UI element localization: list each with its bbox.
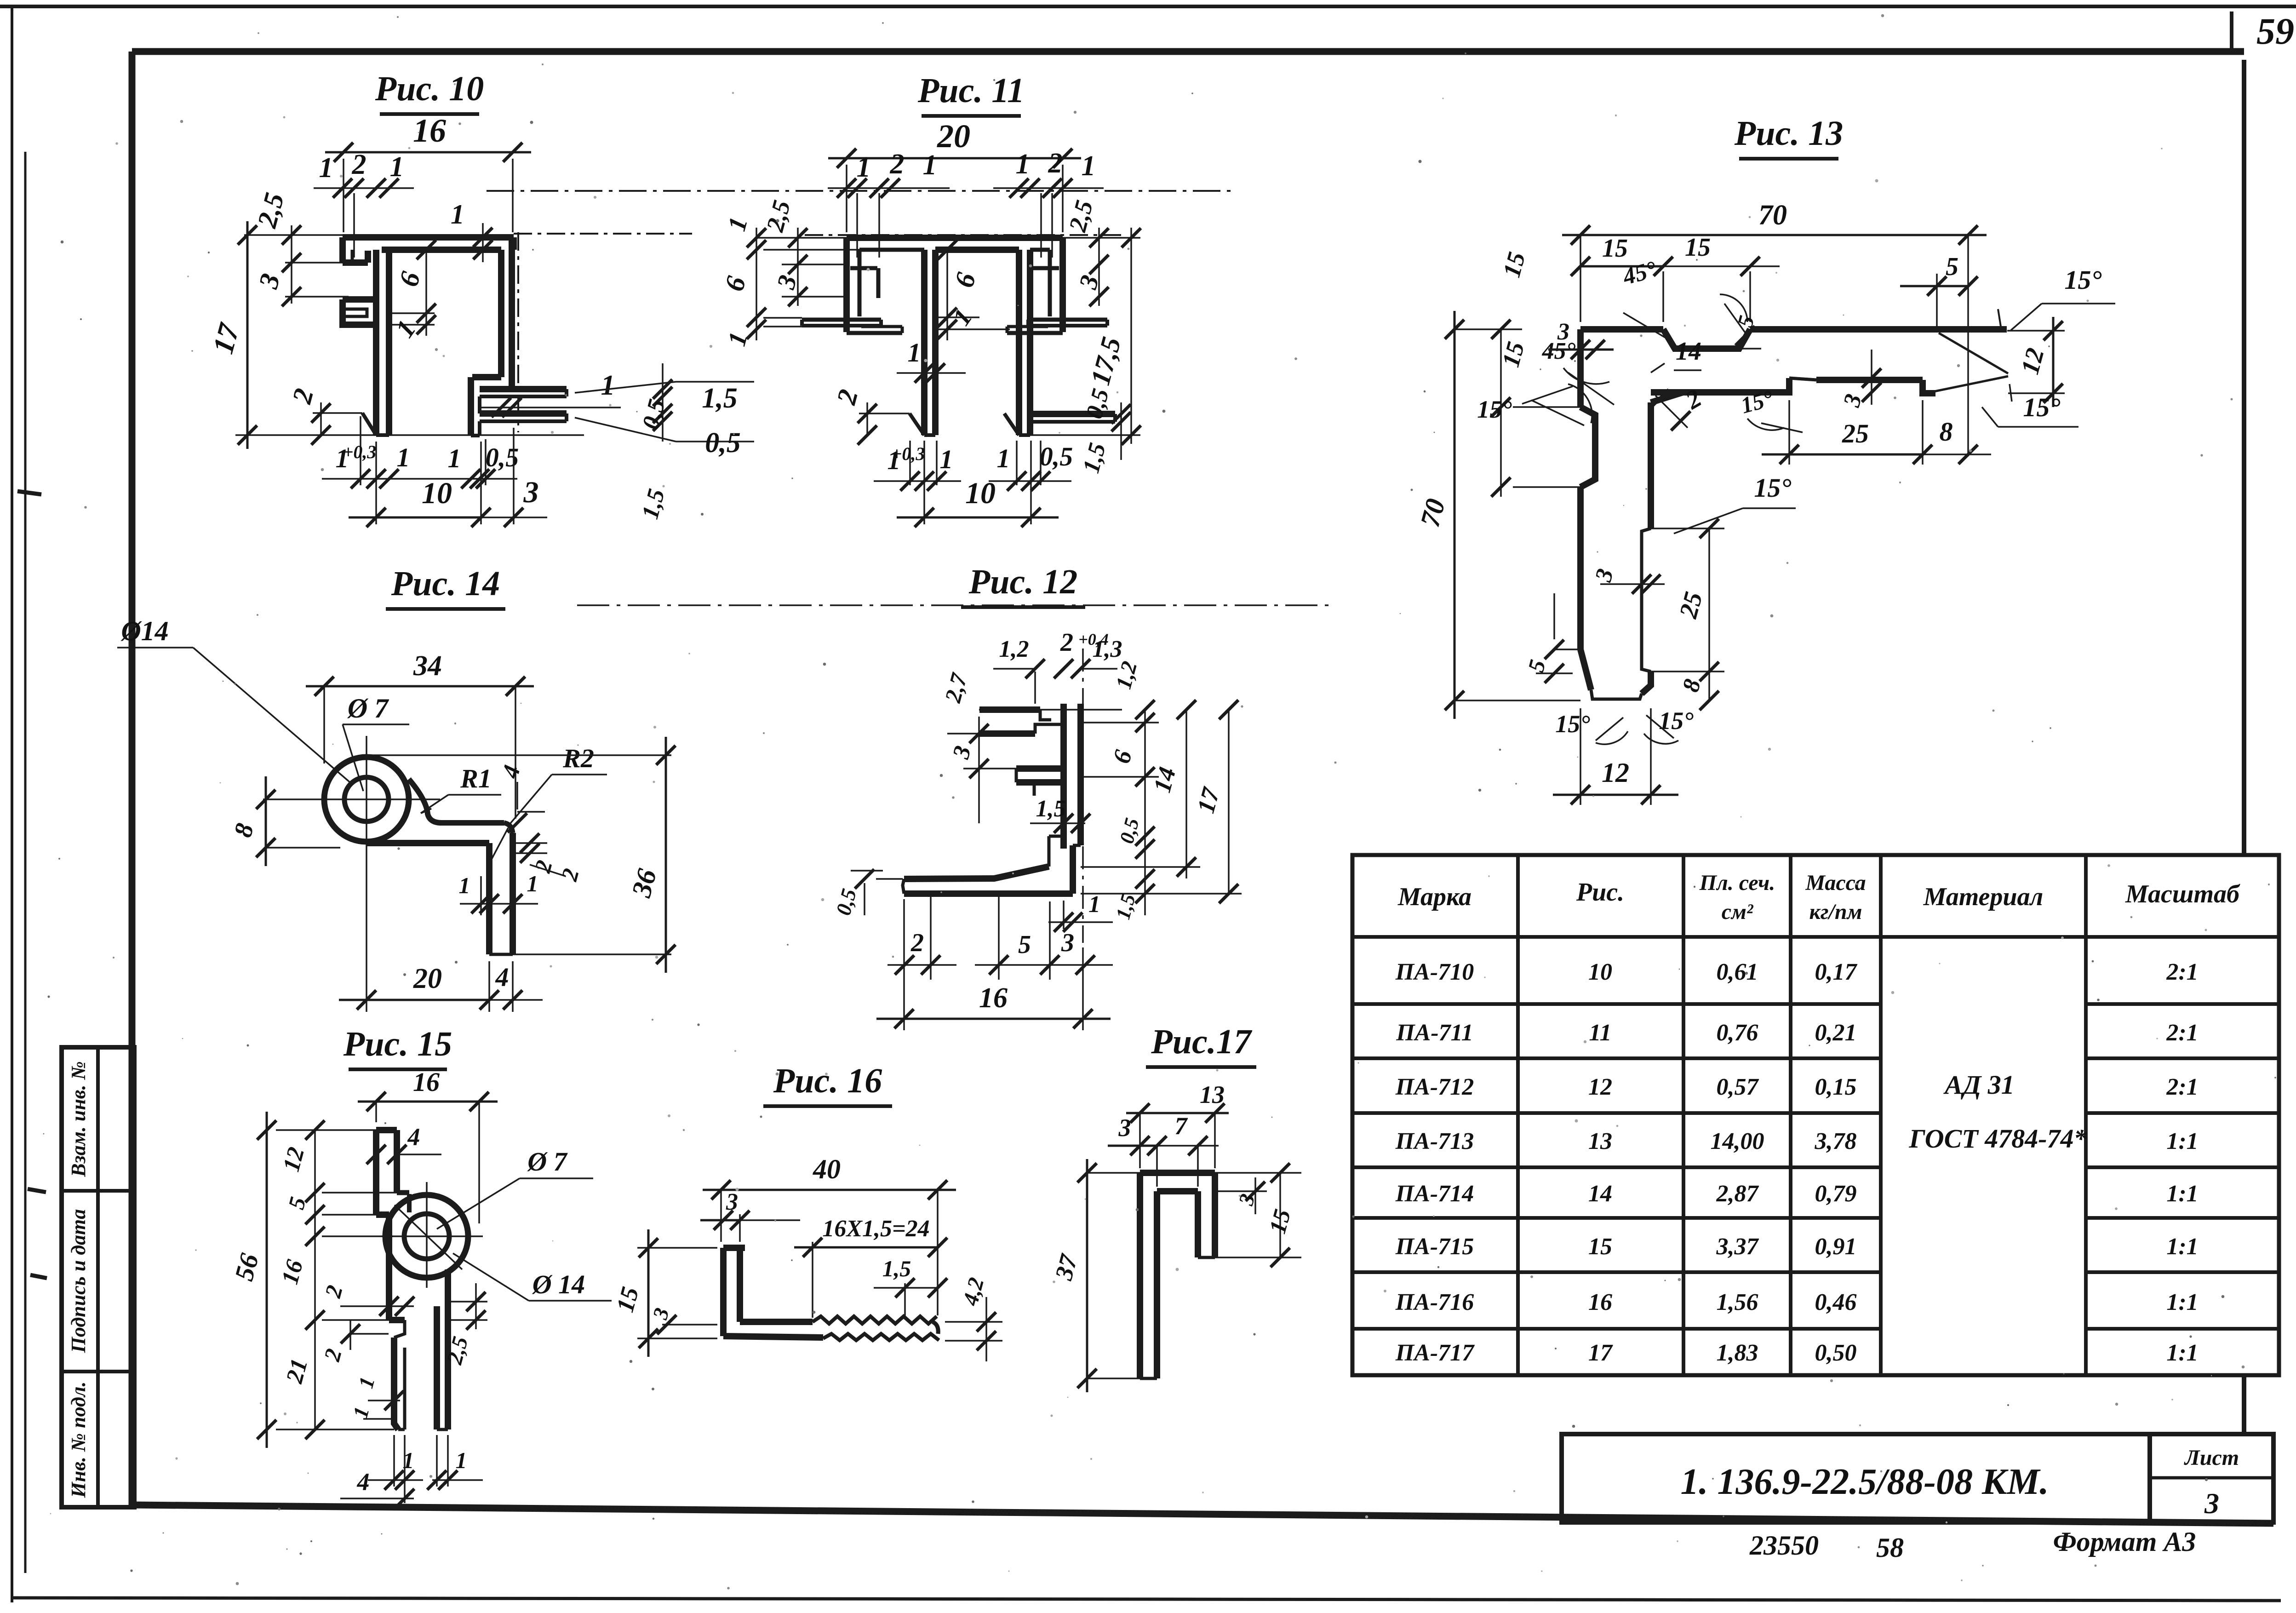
sheet left edge line: [11, 6, 13, 1602]
svg-text:Рис. 13: Рис. 13: [1734, 114, 1843, 153]
svg-text:13: 13: [1200, 1081, 1225, 1108]
svg-text:1,56: 1,56: [1717, 1289, 1758, 1315]
svg-text:10: 10: [965, 476, 996, 510]
svg-text:1: 1: [459, 873, 470, 898]
svg-text:Масса: Масса: [1805, 871, 1866, 895]
profile PA-715 outline: [385, 1195, 468, 1278]
scan noise specks: [1465, 52, 1466, 54]
title block box: [1562, 1434, 2150, 1522]
svg-text:1: 1: [857, 152, 871, 183]
svg-text:10: 10: [1588, 959, 1612, 985]
svg-text:Рис. 15: Рис. 15: [343, 1025, 452, 1063]
svg-text:16: 16: [413, 1067, 440, 1097]
svg-text:1,3: 1,3: [1093, 636, 1122, 662]
svg-text:Ø 7: Ø 7: [527, 1147, 567, 1177]
svg-text:23550: 23550: [1749, 1530, 1819, 1561]
svg-text:5: 5: [1946, 253, 1958, 281]
svg-text:15°: 15°: [2023, 392, 2060, 422]
svg-text:14: 14: [1676, 337, 1701, 366]
svg-text:2:1: 2:1: [2166, 1074, 2198, 1100]
svg-text:12: 12: [1588, 1074, 1612, 1100]
table grid: [1352, 855, 2279, 1375]
svg-text:ПА-710: ПА-710: [1395, 959, 1474, 985]
svg-text:2: 2: [890, 149, 905, 180]
svg-text:59: 59: [2256, 10, 2294, 52]
svg-text:3: 3: [726, 1189, 738, 1215]
svg-text:Рис. 11: Рис. 11: [917, 71, 1025, 110]
svg-text:1: 1: [403, 1447, 414, 1473]
svg-text:1,5: 1,5: [702, 383, 738, 414]
svg-text:ПА-715: ПА-715: [1395, 1234, 1474, 1260]
drawing frame right lower: [2242, 1374, 2246, 1434]
svg-text:1: 1: [451, 199, 464, 230]
svg-text:1:1: 1:1: [2166, 1289, 2198, 1315]
svg-text:1:1: 1:1: [2166, 1128, 2198, 1154]
svg-text:3: 3: [2204, 1487, 2219, 1520]
profile PA-717 outline: [1140, 1170, 1215, 1176]
profile PA-713 outline: [1580, 326, 1663, 333]
svg-text:14,00: 14,00: [1711, 1128, 1764, 1154]
svg-text:4: 4: [407, 1123, 420, 1151]
svg-text:Лист: Лист: [2184, 1446, 2239, 1470]
svg-text:16: 16: [979, 982, 1008, 1014]
svg-text:1: 1: [940, 444, 953, 474]
svg-text:Рис. 10: Рис. 10: [375, 69, 484, 108]
svg-text:ПА-711: ПА-711: [1396, 1020, 1473, 1046]
svg-text:2: 2: [352, 149, 366, 180]
svg-text:1: 1: [448, 443, 461, 473]
svg-text:5: 5: [1018, 930, 1031, 959]
fig10 dimensions: [343, 159, 344, 232]
svg-text:+0,3: +0,3: [343, 442, 377, 462]
svg-text:Формат А3: Формат А3: [2053, 1527, 2196, 1557]
svg-text:Подпись и дата: Подпись и дата: [67, 1209, 90, 1354]
svg-text:Рис.: Рис.: [1576, 878, 1624, 907]
svg-text:ПА-716: ПА-716: [1395, 1289, 1474, 1315]
svg-text:0,76: 0,76: [1717, 1020, 1758, 1046]
svg-text:58: 58: [1876, 1533, 1904, 1563]
fig13 dimensions: [1580, 235, 1581, 322]
svg-text:1: 1: [1082, 150, 1096, 182]
svg-text:10: 10: [422, 476, 452, 510]
svg-text:2: 2: [1048, 148, 1063, 179]
svg-text:1:1: 1:1: [2166, 1181, 2198, 1207]
svg-text:Пл. сеч.: Пл. сеч.: [1699, 871, 1775, 895]
svg-text:1: 1: [390, 151, 404, 183]
svg-text:11: 11: [1589, 1020, 1611, 1046]
fig12 dimensions: [993, 668, 1035, 670]
svg-text:1: 1: [397, 442, 410, 472]
svg-text:ПА-714: ПА-714: [1395, 1181, 1474, 1207]
fig17 dimensions: [1139, 1113, 1141, 1168]
drawing frame left: [129, 52, 136, 1506]
svg-text:15°: 15°: [1754, 473, 1791, 503]
svg-text:20: 20: [937, 118, 970, 155]
svg-text:70: 70: [1758, 200, 1787, 231]
svg-text:40: 40: [813, 1154, 841, 1184]
svg-text:Рис. 16: Рис. 16: [773, 1062, 882, 1100]
svg-text:15°: 15°: [2064, 265, 2101, 295]
svg-text:1:1: 1:1: [2166, 1340, 2198, 1366]
sheet bottom edge line: [11, 1598, 2281, 1601]
svg-text:3: 3: [1061, 929, 1074, 957]
svg-text:0,46: 0,46: [1815, 1289, 1857, 1315]
svg-text:3,37: 3,37: [1716, 1234, 1759, 1260]
svg-text:Инв. № подл.: Инв. № подл.: [67, 1382, 90, 1498]
svg-text:1: 1: [908, 338, 921, 367]
svg-text:3: 3: [1557, 319, 1569, 345]
svg-text:1: 1: [319, 152, 333, 184]
fold mark lower: [30, 1275, 47, 1278]
svg-text:7: 7: [1175, 1112, 1188, 1140]
svg-text:Марка: Марка: [1397, 883, 1472, 911]
drawing frame right upper: [2242, 60, 2246, 856]
svg-text:1: 1: [1088, 891, 1100, 918]
svg-text:R1: R1: [460, 763, 492, 793]
svg-text:0,5: 0,5: [1040, 442, 1073, 471]
svg-text:14: 14: [1588, 1181, 1612, 1207]
svg-text:15: 15: [1685, 233, 1711, 262]
profile PA-716 outline: [723, 1245, 745, 1251]
fold mark upper: [17, 491, 41, 494]
svg-text:1: 1: [1016, 149, 1030, 180]
svg-text:см²: см²: [1722, 900, 1754, 924]
svg-text:Взам. инв. №: Взам. инв. №: [67, 1061, 90, 1177]
svg-text:R2: R2: [562, 743, 594, 773]
svg-text:0,15: 0,15: [1815, 1074, 1857, 1100]
svg-text:4: 4: [495, 962, 509, 992]
sheet inner left line: [24, 152, 27, 1573]
svg-text:0,5: 0,5: [705, 427, 741, 459]
svg-text:3: 3: [523, 476, 539, 509]
sidebar stamp box: [62, 1047, 134, 1507]
profile PA-712 outline: [577, 604, 1329, 606]
svg-text:1: 1: [456, 1447, 467, 1473]
svg-text:0,17: 0,17: [1815, 959, 1858, 985]
svg-text:8: 8: [1940, 417, 1953, 447]
svg-text:0,91: 0,91: [1815, 1234, 1857, 1260]
svg-text:2:1: 2:1: [2166, 1020, 2198, 1046]
profile PA-711 outline: [487, 190, 1237, 192]
drawing frame bottom: [132, 1505, 2273, 1523]
svg-text:25: 25: [1842, 419, 1869, 448]
svg-text:15°: 15°: [1477, 396, 1512, 423]
svg-text:1:1: 1:1: [2166, 1234, 2198, 1260]
svg-text:2: 2: [1060, 628, 1073, 657]
svg-text:2:1: 2:1: [2166, 959, 2198, 985]
drawing frame top: [132, 48, 2244, 55]
svg-text:Ø 7: Ø 7: [347, 693, 389, 723]
svg-text:Ø14: Ø14: [120, 616, 168, 646]
svg-text:Рис.17: Рис.17: [1151, 1022, 1252, 1061]
svg-text:Материал: Материал: [1923, 883, 2044, 911]
svg-text:1: 1: [527, 871, 538, 896]
fig15 dimensions: [375, 1102, 377, 1122]
profile PA-710 outline: [514, 233, 692, 235]
svg-text:1: 1: [997, 443, 1010, 473]
svg-text:2,87: 2,87: [1716, 1181, 1759, 1207]
page number separator: [2230, 11, 2233, 52]
svg-text:2: 2: [910, 929, 924, 957]
svg-text:17: 17: [1588, 1340, 1613, 1366]
svg-text:1,83: 1,83: [1717, 1340, 1758, 1366]
svg-text:ПА-717: ПА-717: [1395, 1340, 1475, 1366]
svg-text:Масштаб: Масштаб: [2125, 880, 2240, 908]
svg-text:0,57: 0,57: [1717, 1074, 1759, 1100]
svg-text:Рис. 14: Рис. 14: [391, 564, 500, 603]
svg-text:3,78: 3,78: [1815, 1128, 1857, 1154]
fold mark mid: [28, 1189, 46, 1192]
svg-text:1. 136.9-22.5/88-08 КМ.: 1. 136.9-22.5/88-08 КМ.: [1681, 1462, 2049, 1502]
svg-text:ГОСТ 4784-74*: ГОСТ 4784-74*: [1908, 1124, 2087, 1154]
svg-text:Ø 14: Ø 14: [532, 1269, 585, 1299]
svg-text:кг/пм: кг/пм: [1809, 900, 1862, 924]
svg-text:ПА-713: ПА-713: [1395, 1128, 1474, 1154]
svg-text:16Х1,5=24: 16Х1,5=24: [822, 1216, 929, 1242]
svg-text:4: 4: [357, 1468, 370, 1496]
svg-text:13: 13: [1588, 1128, 1612, 1154]
svg-text:Рис. 12: Рис. 12: [968, 563, 1077, 601]
svg-text:15: 15: [1602, 234, 1628, 263]
svg-text:12: 12: [1602, 758, 1629, 788]
svg-text:1: 1: [923, 149, 937, 181]
profile PA-714 outline: [324, 757, 409, 842]
sheet top edge line: [0, 5, 2296, 8]
svg-text:16: 16: [413, 112, 446, 149]
svg-text:0,21: 0,21: [1815, 1020, 1857, 1046]
svg-text:16: 16: [1588, 1289, 1612, 1315]
svg-text:1,2: 1,2: [999, 636, 1029, 662]
svg-text:0,50: 0,50: [1815, 1340, 1857, 1366]
svg-text:0,79: 0,79: [1815, 1181, 1857, 1207]
fig11 dimensions: [846, 165, 847, 232]
svg-text:1,5: 1,5: [1036, 796, 1066, 822]
svg-text:15: 15: [1588, 1234, 1612, 1260]
svg-text:1,5: 1,5: [882, 1256, 911, 1281]
svg-text:1: 1: [601, 370, 615, 401]
svg-text:ПА-712: ПА-712: [1395, 1074, 1474, 1100]
svg-text:34: 34: [413, 650, 442, 682]
svg-text:20: 20: [413, 963, 442, 994]
fig16 dimensions: [720, 1190, 722, 1242]
svg-text:3: 3: [1118, 1114, 1131, 1142]
svg-text:АД 31: АД 31: [1943, 1070, 2015, 1100]
fig14 dimensions: [323, 686, 325, 763]
svg-text:15°: 15°: [1555, 710, 1590, 738]
svg-text:0,61: 0,61: [1717, 959, 1758, 985]
svg-text:+0,3: +0,3: [892, 443, 925, 464]
